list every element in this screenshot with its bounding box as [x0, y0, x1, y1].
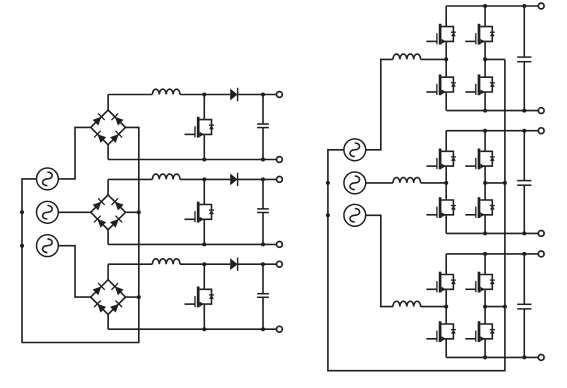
junction: switch node on top rail: [202, 93, 206, 97]
junction: output node (top): [261, 177, 265, 181]
wire: bridge BR3 negative output to bottom rail: [107, 315, 109, 330]
boost diode D2: [230, 173, 237, 186]
junction: output node (top): [261, 93, 265, 97]
junction: output node (bottom): [261, 327, 265, 331]
wire: capacitor C5 to negative rail: [523, 185, 525, 233]
bridge BR3 diode (upper-right): [111, 283, 124, 296]
wire: MOSFET Q1 drain lead: [203, 95, 205, 120]
output terminal (module 2 negative): [538, 231, 544, 237]
output terminal (module 1 negative): [538, 108, 544, 114]
wire: leg b midpoint link: [484, 166, 486, 200]
wire: source V4 to module 1 inductor: [366, 59, 393, 149]
wire: module 3 positive rail: [446, 253, 538, 255]
junction: module 3 return on bus: [503, 305, 507, 309]
output terminal (stage 3 positive): [277, 261, 283, 267]
wire: leg b midpoint link: [484, 289, 486, 324]
output terminal (module 3 negative): [538, 355, 544, 361]
diode bridge BR2 outline: [91, 195, 126, 230]
junction: right leg on positive rail: [483, 129, 487, 133]
wire: right leg midpoint to return bus: [485, 58, 505, 60]
wire: boost diode D1 to output node: [238, 94, 277, 96]
MOSFET Q1: [185, 117, 215, 138]
wire: module 2 negative rail: [446, 232, 538, 234]
wire: leg a midpoint link: [445, 289, 447, 324]
wire: bridge BR2 positive output to top rail: [107, 179, 109, 195]
wire: bridge BR1 positive output to top rail: [107, 95, 109, 111]
inductor L5: [393, 178, 421, 183]
junction: capacitor on positive rail: [522, 252, 526, 256]
wire: positive rail to capacitor C4: [523, 6, 525, 57]
wire: MOSFET Q3 drain lead: [203, 264, 205, 289]
wire: leg b upper MOSFET drain lead: [484, 254, 486, 275]
junction: right leg on negative rail: [483, 109, 487, 113]
capacitor C5: [517, 181, 531, 186]
module 3 of right converter (H-bridge): [393, 251, 544, 360]
left converter: three-phase rectifier built from three single-phase boost-PFC modules: [20, 88, 282, 343]
MOSFET Q3: [185, 287, 215, 308]
wire: output node to capacitor C1 top plate: [262, 95, 264, 125]
wire: module 1 positive rail: [446, 5, 538, 7]
right converter: three-phase rectifier built from three single-phase full-bridge (totem-pole) modules: [326, 3, 544, 371]
junction: return node, right leg midpoint: [483, 181, 487, 185]
bridge BR2 diode (lower-left): [94, 216, 107, 229]
wire: neutral bus (right sources common + module returns): [328, 59, 505, 370]
junction: phase node, left leg midpoint: [444, 305, 448, 309]
wire: capacitor C1 bottom plate to bottom rail: [262, 128, 264, 160]
output terminal (module 2 positive): [538, 128, 544, 134]
junction: source V5 on neutral bus: [326, 181, 330, 185]
junction: output node (bottom): [261, 242, 265, 246]
wire: bottom rail of stage 1: [108, 159, 276, 161]
bridge BR2 diode (lower-right): [110, 216, 123, 229]
output terminal (stage 2 negative): [277, 242, 283, 248]
wire: leg a midpoint link: [445, 41, 447, 77]
MOSFET Q3a (upper): [426, 272, 456, 293]
diode bridge BR3 outline: [91, 280, 126, 315]
wire: leg b lower MOSFET source lead: [484, 92, 486, 111]
wire: right leg midpoint to return bus: [485, 182, 505, 184]
MOSFET Q3b (lower): [465, 321, 495, 342]
capacitor C4: [517, 57, 531, 62]
MOSFET Q2b (upper): [465, 149, 495, 170]
junction: phase node, left leg midpoint: [444, 181, 448, 185]
inductor L3: [152, 259, 180, 264]
stage 1 of left converter: [91, 88, 283, 163]
wire: leg a midpoint link: [445, 166, 447, 200]
wire: output node to capacitor C3 top plate: [262, 264, 264, 294]
junction: right leg on negative rail: [483, 231, 487, 235]
wire: inductor L6 to left leg midpoint: [421, 306, 447, 308]
inductor L1: [152, 89, 180, 94]
wire: top rail from bridge to inductor L2: [108, 178, 152, 180]
boost diode D3: [230, 258, 237, 271]
AC source V4: [344, 139, 366, 161]
bridge BR1 diode (lower-left): [94, 131, 107, 144]
wire: inductor L5 to left leg midpoint: [421, 182, 447, 184]
inductor L2: [152, 174, 180, 179]
bridge BR1 diode (upper-right): [111, 113, 124, 126]
diode bridge BR1 outline: [91, 110, 126, 145]
inductor L4: [393, 54, 421, 59]
MOSFET Q1b (upper): [465, 24, 495, 45]
bridge BR2 diode (upper-left): [92, 198, 105, 211]
AC source V5: [344, 172, 366, 194]
wire: bridge BR3 positive output to top rail: [107, 264, 109, 280]
stage 2 of left converter: [91, 173, 283, 248]
output terminal (module 1 positive): [538, 3, 544, 9]
bridge BR1 diode (upper-left): [92, 113, 105, 126]
junction: source V2 on neutral bus: [20, 210, 24, 214]
capacitor C2: [257, 209, 269, 213]
wire: MOSFET Q3 source lead: [203, 304, 205, 329]
junction: module 2 return on bus: [503, 181, 507, 185]
wire: capacitor C3 bottom plate to bottom rail: [262, 297, 264, 329]
MOSFET Q2a (lower): [426, 197, 456, 218]
junction: switch node on top rail: [202, 262, 206, 266]
wire: leg a upper MOSFET drain lead: [445, 131, 447, 152]
wire: capacitor C4 to negative rail: [523, 62, 525, 111]
wire: positive rail to capacitor C6: [523, 254, 525, 304]
AC source V6: [344, 204, 366, 226]
bridge BR3 diode (upper-left): [92, 283, 105, 296]
wire: capacitor C6 to negative rail: [523, 309, 525, 358]
wire: module 3 negative rail: [446, 356, 538, 358]
AC source V1: [37, 168, 59, 190]
junction: switch node on top rail: [202, 177, 206, 181]
bridge BR1 diode (lower-right): [110, 131, 123, 144]
wire: leg b midpoint link: [484, 41, 486, 77]
wire: source V1 to bridge BR1 AC input: [58, 127, 90, 178]
junction: right leg on positive rail: [483, 4, 487, 8]
junction: bridge BR3 return on neutral bus: [137, 295, 141, 299]
inductor L6: [393, 301, 421, 306]
MOSFET Q1a (upper): [426, 24, 456, 45]
wire: leg b upper MOSFET drain lead: [484, 6, 486, 27]
junction: output node (bottom): [261, 158, 265, 162]
wire: boost diode D3 to output node: [238, 263, 277, 265]
MOSFET Q1b (lower): [465, 74, 495, 95]
AC source V3: [37, 235, 59, 257]
capacitor C3: [257, 294, 269, 298]
MOSFET Q2: [185, 202, 215, 223]
junction: MOSFET Q2 source on bottom rail: [202, 242, 206, 246]
wire: bridge BR3 AC return to neutral bus: [126, 296, 139, 298]
junction: phase node, left leg midpoint: [444, 57, 448, 61]
wire: neutral bus (sources common + bridge AC returns): [22, 127, 139, 342]
junction: MOSFET Q1 source on bottom rail: [202, 158, 206, 162]
wire: bridge BR2 AC return to neutral bus: [126, 211, 139, 213]
wire: leg a lower MOSFET source lead: [445, 215, 447, 234]
output terminal (stage 1 positive): [277, 92, 283, 98]
junction: output node (top): [261, 262, 265, 266]
junction: capacitor on negative rail: [522, 109, 526, 113]
wire: source V6 to module 3 inductor: [366, 215, 393, 306]
wire: bottom rail of stage 2: [108, 243, 276, 245]
wire: source V3 to bridge BR3 AC input: [58, 246, 90, 297]
wire: top rail from bridge to inductor L1: [108, 94, 152, 96]
module 1 of right converter (H-bridge): [393, 3, 544, 113]
AC source V2: [37, 201, 59, 223]
junction: return node, right leg midpoint: [483, 57, 487, 61]
junction: bridge BR2 return on neutral bus: [137, 210, 141, 214]
module 2 of right converter (H-bridge): [393, 128, 544, 237]
wire: source V5 to module 2 inductor: [366, 182, 393, 184]
wire: MOSFET Q2 source lead: [203, 219, 205, 244]
wire: inductor L1 to boost diode D1: [180, 94, 230, 96]
junction: return node, right leg midpoint: [483, 305, 487, 309]
MOSFET Q3b (upper): [465, 272, 495, 293]
wire: boost diode D2 to output node: [238, 178, 277, 180]
wire: bottom rail of stage 3: [108, 328, 276, 330]
bridge BR2 diode (upper-right): [111, 198, 124, 211]
wire: leg b lower MOSFET source lead: [484, 215, 486, 234]
wire: MOSFET Q1 source lead: [203, 134, 205, 159]
capacitor C6: [517, 304, 531, 309]
MOSFET Q2b (lower): [465, 197, 495, 218]
bridge BR3 diode (lower-right): [110, 300, 123, 313]
junction: capacitor on negative rail: [522, 355, 526, 359]
wire: capacitor C2 bottom plate to bottom rail: [262, 213, 264, 245]
wire: leg b lower MOSFET source lead: [484, 339, 486, 358]
wire: right leg midpoint to return bus: [485, 306, 505, 308]
junction: capacitor on positive rail: [522, 129, 526, 133]
wire: inductor L4 to left leg midpoint: [421, 58, 447, 60]
junction: source V3 on neutral bus: [20, 244, 24, 248]
capacitor C1: [257, 124, 269, 128]
boost diode D1: [230, 88, 237, 101]
junction: capacitor on negative rail: [522, 231, 526, 235]
junction: capacitor on positive rail: [522, 4, 526, 8]
junction: source V6 on neutral bus: [326, 213, 330, 217]
wire: module 1 negative rail: [446, 110, 538, 112]
wire: inductor L3 to boost diode D3: [180, 263, 230, 265]
wire: bridge BR1 negative output to bottom rail: [107, 145, 109, 160]
output terminal (module 3 positive): [538, 251, 544, 257]
wire: positive rail to capacitor C5: [523, 131, 525, 181]
output terminal (stage 2 positive): [277, 177, 283, 183]
junction: MOSFET Q3 source on bottom rail: [202, 327, 206, 331]
wire: inductor L2 to boost diode D2: [180, 178, 230, 180]
stage 3 of left converter: [91, 258, 283, 333]
MOSFET Q1a (lower): [426, 74, 456, 95]
wire: leg b upper MOSFET drain lead: [484, 131, 486, 152]
wire: leg a upper MOSFET drain lead: [445, 254, 447, 275]
MOSFET Q2a (upper): [426, 149, 456, 170]
junction: right leg on negative rail: [483, 355, 487, 359]
wire: module 2 positive rail: [446, 130, 538, 132]
wire: MOSFET Q2 drain lead: [203, 179, 205, 204]
wire: leg a upper MOSFET drain lead: [445, 6, 447, 27]
output terminal (stage 3 negative): [277, 326, 283, 332]
wire: top rail from bridge to inductor L3: [108, 263, 152, 265]
wire: output node to capacitor C2 top plate: [262, 179, 264, 209]
wire: leg a lower MOSFET source lead: [445, 339, 447, 358]
wire: source V2 to bridge BR2 AC input: [58, 211, 90, 213]
junction: right leg on positive rail: [483, 252, 487, 256]
wire: bridge BR2 negative output to bottom rail: [107, 230, 109, 245]
output terminal (stage 1 negative): [277, 157, 283, 163]
bridge BR3 diode (lower-left): [94, 300, 107, 313]
MOSFET Q3a (lower): [426, 321, 456, 342]
wire: leg a lower MOSFET source lead: [445, 92, 447, 111]
